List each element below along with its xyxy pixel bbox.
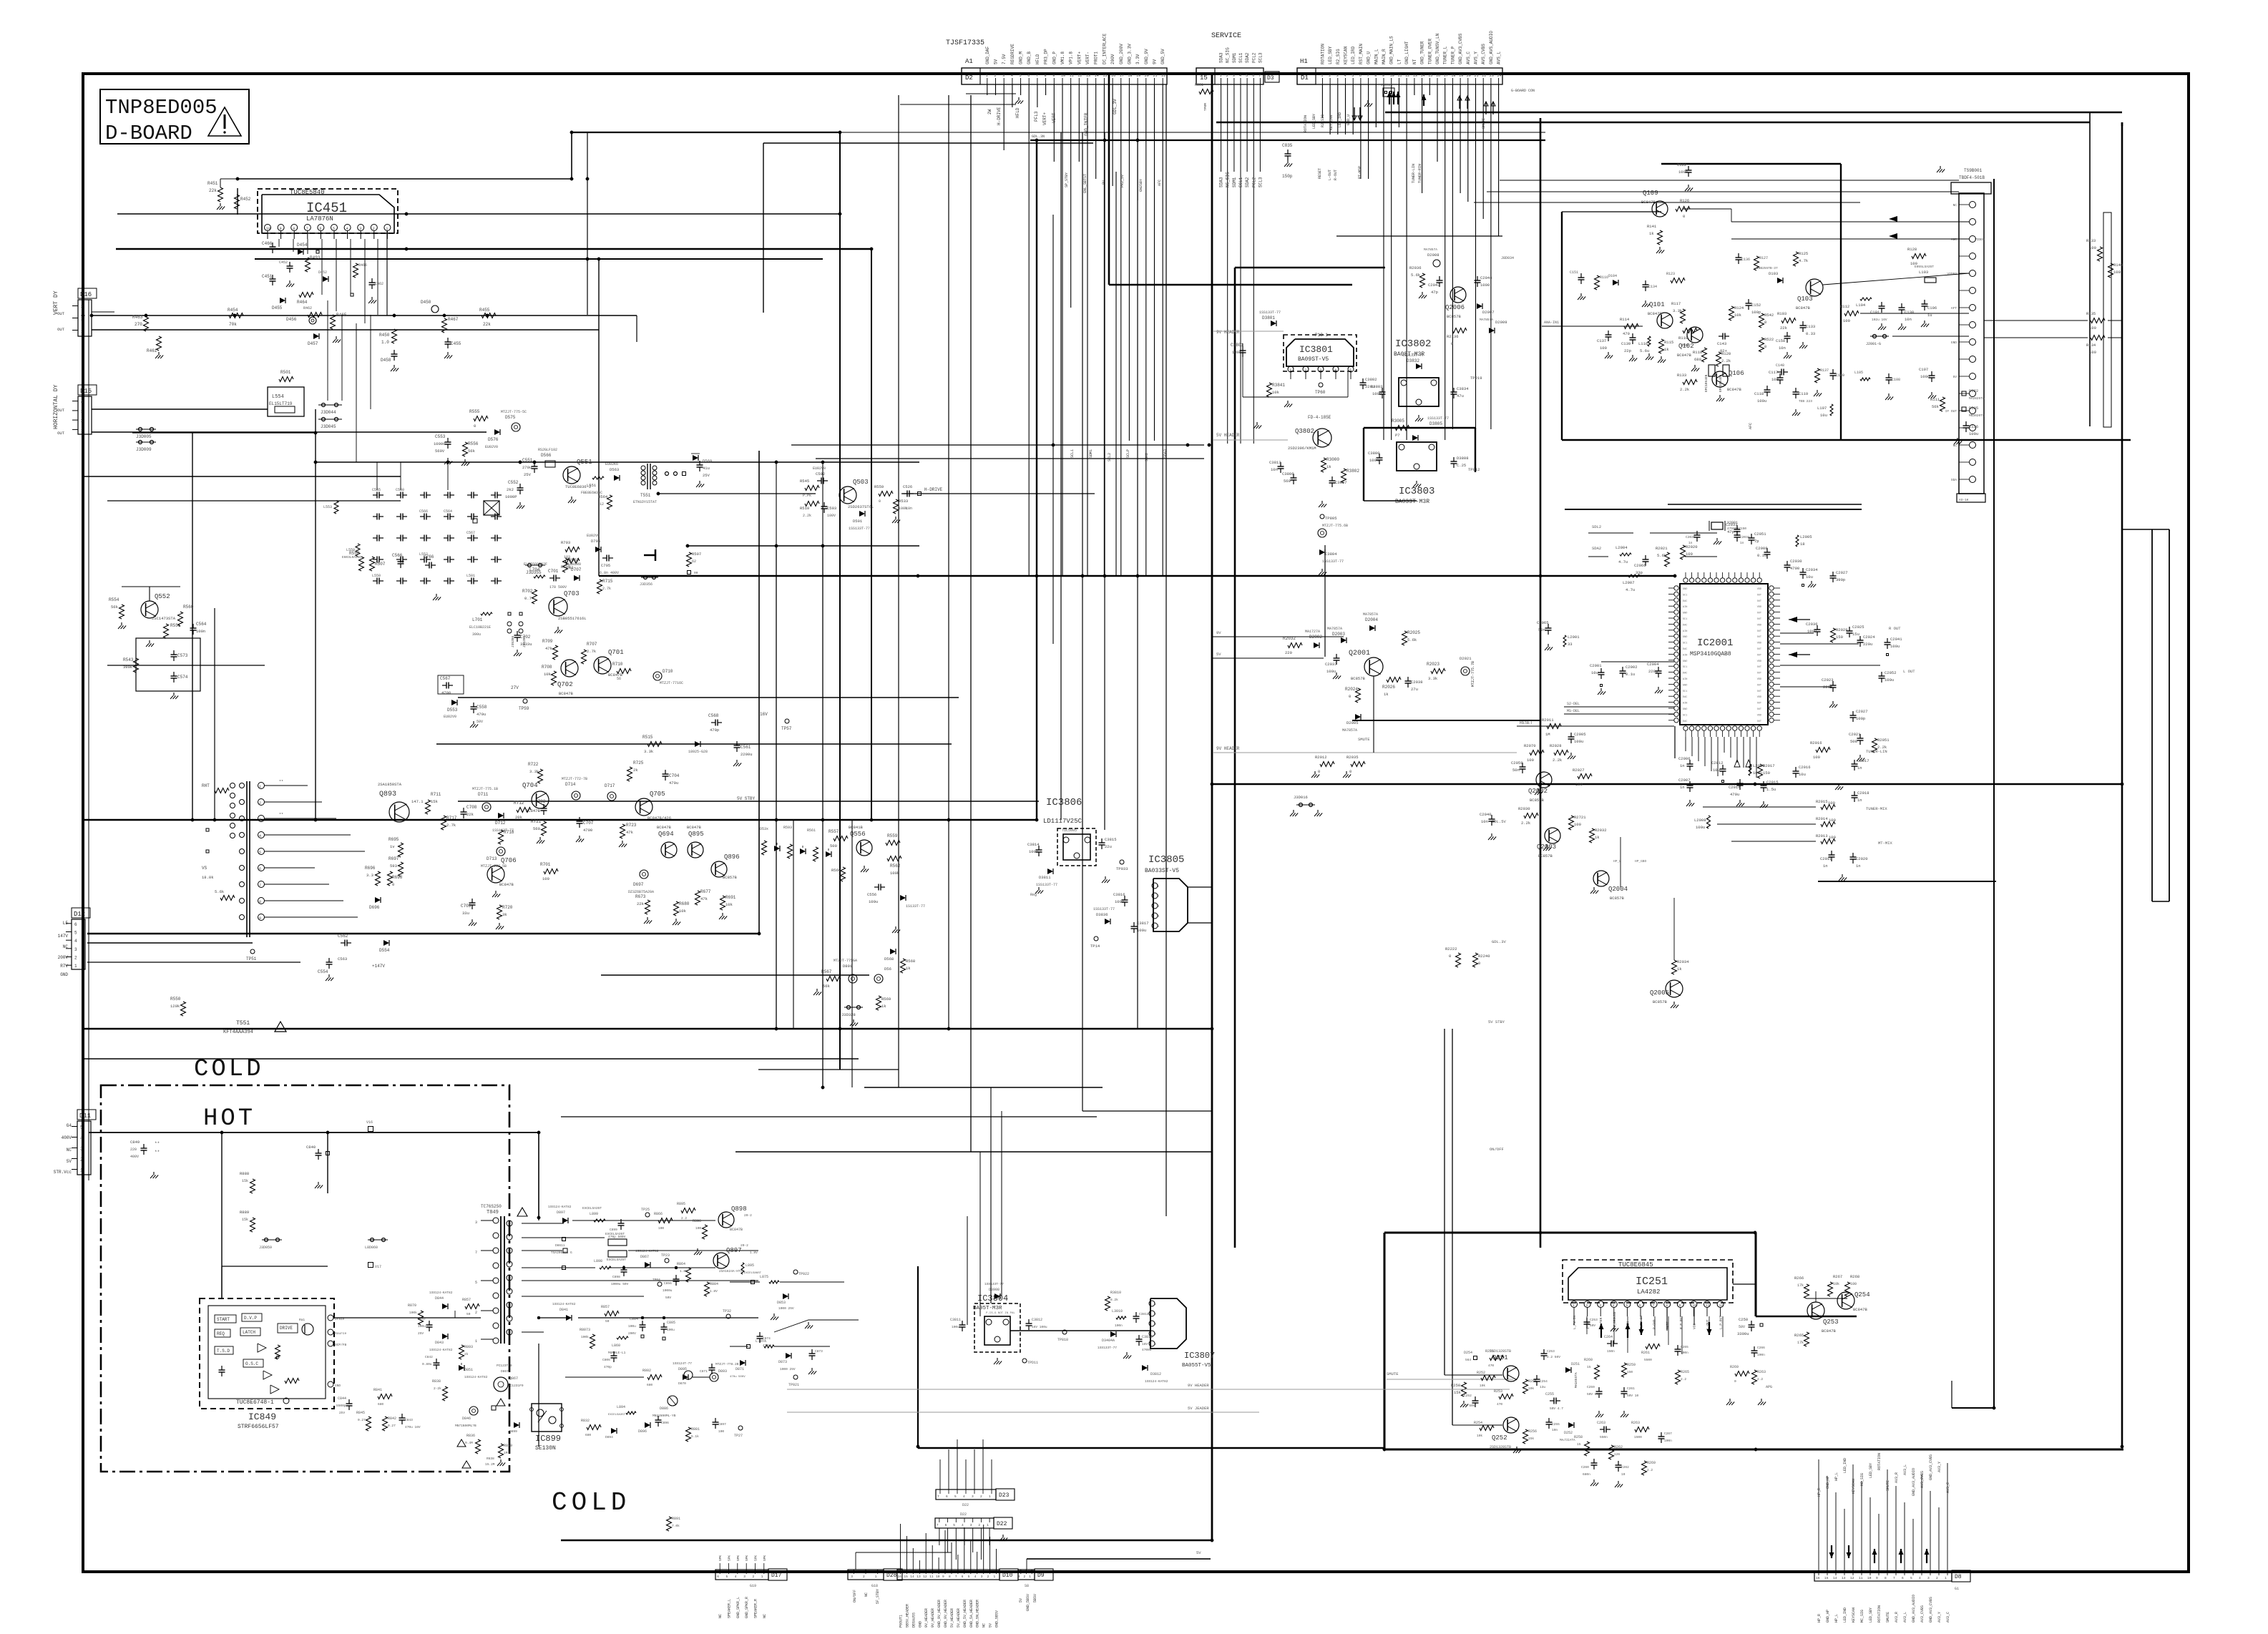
svg-text:R117: R117	[1671, 301, 1681, 306]
svg-text:C843: C843	[405, 1418, 413, 1422]
IC849 inner box	[208, 1306, 326, 1399]
svg-text:1: 1	[1289, 368, 1291, 373]
wire V 2019 audio feed	[1444, 1029, 1445, 1375]
transistor Q703	[549, 597, 567, 616]
capacitor C3807	[1331, 476, 1333, 481]
svg-text:22: 22	[1482, 74, 1486, 78]
testpoint TP3818	[1062, 1330, 1067, 1334]
svg-text:220u: 220u	[1648, 669, 1658, 674]
svg-text:SCL3: SCL3	[1258, 177, 1263, 187]
capacitor C2023	[1832, 681, 1834, 685]
svg-text:APG: APG	[1766, 1385, 1772, 1389]
svg-text:47u: 47u	[1457, 393, 1464, 398]
arrow dn hollow 1	[1354, 107, 1355, 120]
ground Q2006 area	[1422, 292, 1423, 295]
svg-text:10n: 10n	[1771, 377, 1779, 382]
svg-text:47k: 47k	[626, 830, 634, 835]
diode D841	[566, 1315, 572, 1321]
capacitor C266	[1754, 1346, 1755, 1351]
wires IC451 pin drops	[278, 239, 280, 247]
tuner box bottom edge	[1562, 439, 2131, 441]
resistor R717	[441, 816, 446, 830]
wire tuner right b	[1984, 337, 2088, 338]
svg-text:TJSF17335: TJSF17335	[946, 39, 984, 47]
svg-text:GND_B: GND_B	[1027, 52, 1032, 64]
svg-text:L116: L116	[1638, 341, 1648, 346]
svg-text:D15: D15	[80, 388, 92, 395]
svg-text:R711: R711	[431, 792, 441, 797]
resistor R565	[834, 836, 848, 841]
capacitor C148	[1777, 371, 1781, 373]
capacitor snubber 10	[444, 516, 448, 517]
svg-text:**: **	[155, 1141, 160, 1146]
svg-text:VERT+: VERT+	[1077, 52, 1082, 64]
svg-text:1k: 1k	[1384, 692, 1389, 697]
resistor R559b	[879, 491, 893, 496]
svg-text:AGC: AGC	[1951, 238, 1957, 242]
svg-text:5: 5	[953, 1523, 955, 1527]
resistor R2015	[1821, 805, 1835, 810]
svg-text:GND_DAF: GND_DAF	[985, 46, 990, 64]
svg-text:1: 1	[1029, 1575, 1031, 1579]
svg-text:SMUTE: SMUTE	[1886, 1612, 1890, 1623]
wire snubber v1	[376, 462, 378, 490]
capacitor C152	[1748, 299, 1749, 303]
svg-text:470: 470	[1497, 1402, 1502, 1406]
svg-text:564: 564	[1465, 1358, 1471, 1362]
svg-text:BC847B: BC847B	[499, 882, 514, 887]
svg-text:R857: R857	[601, 1305, 610, 1309]
svg-text:3: 3	[1157, 904, 1159, 909]
svg-text:C564: C564	[196, 622, 207, 627]
svg-text:DAC: DAC	[1683, 648, 1687, 651]
svg-text:C849: C849	[130, 1140, 140, 1145]
IC3807 body	[1150, 1298, 1186, 1349]
svg-text:100: 100	[1829, 818, 1836, 823]
svg-text:9V: 9V	[1102, 180, 1106, 185]
svg-text:J8D034: J8D034	[1501, 256, 1514, 260]
svg-text:TP219: TP219	[1470, 376, 1482, 381]
ground C835	[1287, 160, 1289, 164]
wire T849 rail 7	[522, 1331, 544, 1333]
svg-text:100u: 100u	[1969, 431, 1978, 436]
diode D459	[394, 350, 395, 354]
capacitor C2025	[1849, 627, 1850, 631]
svg-text:5: 5	[726, 1575, 728, 1579]
resistor R2026	[1387, 677, 1401, 683]
capacitor C253a	[1586, 1318, 1588, 1322]
ground R558	[464, 459, 466, 463]
resistor R263b	[1752, 1370, 1757, 1384]
capacitor snubber 23	[467, 559, 471, 560]
svg-text:470u 500V: 470u 500V	[730, 1376, 746, 1379]
wire tuner right d	[2108, 337, 2122, 338]
svg-text:22k: 22k	[483, 322, 491, 327]
capacitor C256	[1548, 1418, 1550, 1422]
svg-text:400V: 400V	[62, 1135, 72, 1140]
svg-text:MTZJT-777.5B: MTZJT-777.5B	[481, 864, 507, 869]
svg-text:2.2k: 2.2k	[1721, 358, 1731, 363]
svg-text:R533: R533	[899, 499, 908, 504]
resistor R111	[1940, 397, 1945, 411]
svg-text:5V: 5V	[1216, 652, 1221, 657]
capacitor C255	[1550, 1400, 1554, 1401]
svg-text:R703: R703	[561, 540, 570, 545]
svg-text:L2004: L2004	[1616, 545, 1628, 550]
capacitor C847	[429, 1321, 430, 1325]
resistor R266	[1804, 1284, 1809, 1298]
ground R451	[220, 203, 221, 207]
svg-text:2.7k: 2.7k	[446, 823, 456, 828]
IC3802 pins	[1401, 380, 1407, 386]
resistor R702	[532, 589, 537, 604]
svg-text:EXCELSA35T: EXCELSA35T	[607, 1258, 626, 1262]
svg-text:16: 16	[1436, 74, 1440, 78]
inductor L551	[592, 476, 604, 479]
svg-text:EXCELSA35T: EXCELSA35T	[605, 1232, 625, 1236]
capacitor C2024	[1859, 636, 1861, 640]
capacitor C805	[663, 1323, 665, 1327]
ground R461	[158, 352, 160, 356]
capacitor snubber 19	[373, 559, 377, 560]
svg-text:12: 12	[1077, 74, 1082, 78]
wire IC3804-3807	[1010, 1330, 1150, 1331]
wire tuner right a	[1984, 320, 2088, 321]
small square T551 a	[206, 828, 209, 831]
resistor R543	[134, 658, 139, 672]
resistor R253	[1499, 1394, 1513, 1399]
capacitor C265	[1677, 1345, 1678, 1349]
svg-text:P-IS-G NOT IN PAL: P-IS-G NOT IN PAL	[986, 1312, 1015, 1315]
svg-text:R718: R718	[504, 830, 514, 835]
capacitor C526	[903, 493, 907, 494]
svg-text:20: 20	[1467, 74, 1471, 78]
svg-text:1k: 1k	[906, 966, 911, 971]
rect frame R543	[136, 638, 200, 691]
svg-text:560V: 560V	[435, 449, 445, 454]
svg-text:Q2006: Q2006	[1445, 304, 1465, 311]
wire V3008 right	[2151, 529, 2153, 901]
resistor R466	[353, 263, 358, 278]
capacitor C874	[759, 1332, 761, 1336]
svg-text:J8E036: J8E036	[1381, 83, 1393, 87]
svg-text:HFLD: HFLD	[1015, 107, 1020, 118]
svg-text:R2025: R2025	[1407, 630, 1420, 635]
svg-text:J3D059: J3D059	[259, 1246, 272, 1250]
wire mid H 1520	[864, 1087, 1103, 1088]
svg-text:19: 19	[1459, 74, 1463, 78]
svg-text:D873: D873	[778, 1360, 787, 1364]
ground C840	[318, 1182, 319, 1185]
svg-text:5: 5	[968, 1575, 970, 1579]
ground C2021	[1859, 755, 1861, 758]
capacitor C2052	[1881, 672, 1882, 676]
wire trunk H 1007	[1352, 720, 1540, 721]
svg-text:150: 150	[1627, 1370, 1633, 1374]
wire psu bottom rail	[538, 1344, 539, 1447]
svg-text:100u: 100u	[1696, 825, 1705, 830]
svg-text:5V: 5V	[989, 1623, 993, 1628]
svg-text:TP012: TP012	[1468, 467, 1480, 472]
capacitor snubber 20	[396, 559, 401, 560]
svg-text:C2037: C2037	[1325, 662, 1337, 667]
wire H 763 right feed	[688, 545, 919, 547]
svg-text:TP32: TP32	[723, 1309, 731, 1313]
svg-text:L895: L895	[746, 1263, 754, 1268]
svg-text:R123: R123	[1666, 272, 1675, 276]
svg-text:C503: C503	[827, 506, 836, 511]
capacitor snubber 15	[420, 537, 424, 539]
transistor Q893	[389, 802, 409, 822]
svg-text:R881: R881	[691, 1427, 700, 1432]
svg-text:R857: R857	[462, 1298, 471, 1302]
testpoint TP24	[658, 1282, 662, 1286]
svg-text:100p: 100p	[1856, 716, 1865, 721]
svg-text:C3800: C3800	[1368, 451, 1380, 456]
arrow D8 d	[1831, 1545, 1832, 1558]
resistor R2021	[1665, 552, 1670, 567]
resistor R450	[392, 329, 397, 343]
svg-text:OUT: OUT	[1757, 612, 1761, 615]
ground C130	[1901, 323, 1902, 327]
svg-text:LED_IRD: LED_IRD	[1351, 46, 1356, 64]
svg-text:3: 3	[259, 818, 261, 822]
svg-text:R259: R259	[1627, 1363, 1636, 1367]
svg-text:3: 3	[1599, 1303, 1601, 1308]
svg-text:D10: D10	[1002, 1572, 1013, 1579]
svg-text:C3801: C3801	[1231, 343, 1243, 348]
svg-text:23: 23	[1490, 74, 1494, 78]
svg-text:R2222: R2222	[1445, 946, 1457, 951]
small square L701 a	[508, 612, 511, 615]
svg-text:D3811: D3811	[1039, 875, 1051, 880]
ground C2005	[1570, 753, 1572, 756]
svg-text:SCL3: SCL3	[1258, 52, 1263, 63]
svg-text:NC: NC	[67, 1148, 72, 1153]
svg-text:TEB 223: TEB 223	[1799, 399, 1812, 403]
svg-text:Source: Source	[335, 1331, 347, 1336]
capacitor C566	[400, 557, 401, 562]
resistor R567	[826, 977, 841, 982]
diode arrow a	[1734, 760, 1740, 767]
svg-text:R2034: R2034	[1677, 959, 1689, 964]
svg-text:C264: C264	[1604, 1335, 1613, 1339]
resistor R562	[887, 856, 901, 861]
resistor R258	[1585, 1442, 1590, 1456]
svg-text:200V: 200V	[1110, 54, 1115, 64]
svg-text:VDD: VDD	[1757, 660, 1761, 663]
resistor R268	[1845, 1282, 1850, 1296]
ground Q703	[557, 627, 559, 630]
svg-text:R2032: R2032	[1595, 828, 1607, 833]
svg-text:SMUTE: SMUTE	[1387, 1371, 1399, 1376]
svg-text:SDA3: SDA3	[1219, 177, 1224, 187]
svg-text:680: 680	[647, 1383, 652, 1387]
wire V 1218	[871, 249, 872, 820]
resistor R3841	[1267, 383, 1272, 397]
resistor R3800	[1321, 458, 1326, 472]
svg-text:R463: R463	[132, 315, 143, 320]
svg-text:1SS124-KAT82: 1SS124-KAT82	[429, 1348, 453, 1352]
svg-text:GNL_SBTST: GNL_SBTST	[1083, 174, 1087, 193]
wire bundle D22	[939, 1528, 940, 1545]
svg-text:100u: 100u	[1757, 398, 1766, 403]
svg-text:R269: R269	[1730, 1365, 1739, 1369]
diode D576	[494, 429, 500, 435]
resistor R2070	[1530, 750, 1544, 755]
svg-text:47p: 47p	[1727, 529, 1734, 534]
svg-text:R141: R141	[1647, 224, 1657, 229]
capacitor C708	[463, 808, 464, 812]
svg-text:SDM1: SDM1	[1232, 52, 1237, 63]
svg-text:MN3020TX: MN3020TX	[1969, 414, 1985, 418]
svg-text:Q867: Q867	[509, 1376, 518, 1381]
resistor R845	[366, 1417, 371, 1431]
transistor Q702	[561, 660, 578, 677]
IC3801 body	[1286, 339, 1354, 366]
svg-text:VDD: VDD	[1757, 696, 1761, 699]
svg-text:100n: 100n	[1664, 1439, 1672, 1443]
svg-text:C143: C143	[1717, 341, 1726, 346]
svg-text:2200u: 2200u	[740, 752, 753, 757]
svg-text:3.3k: 3.3k	[1428, 676, 1438, 681]
svg-text:SDA2: SDA2	[1592, 546, 1601, 551]
svg-text:MA/CCATA: MA/CCATA	[1560, 1438, 1575, 1442]
capacitor C568	[711, 722, 715, 723]
gray SMUTE wire	[1387, 1379, 1513, 1380]
resistor R3810	[1105, 1296, 1110, 1311]
resistor R452	[235, 195, 240, 209]
svg-text:TP25: TP25	[641, 1208, 650, 1212]
capacitor C835	[1287, 150, 1289, 154]
svg-text:100u: 100u	[667, 1328, 675, 1332]
svg-text:7p: 7p	[1754, 539, 1759, 544]
diode D710 circle	[653, 672, 662, 680]
ground IC251 a	[1613, 1325, 1615, 1329]
svg-text:47k: 47k	[700, 896, 708, 901]
resistor R522	[1759, 338, 1764, 352]
svg-text:1n: 1n	[1856, 864, 1861, 869]
svg-text:D22: D22	[960, 1512, 967, 1517]
svg-text:126: 126	[1614, 1452, 1620, 1457]
svg-text:R564: R564	[598, 494, 608, 499]
ground D22	[1002, 1535, 1004, 1538]
svg-text:R2012: R2012	[1315, 755, 1327, 760]
wire trunk H 1146	[83, 819, 1037, 821]
svg-text:R8073: R8073	[580, 1328, 590, 1332]
svg-text:NC: NC	[1953, 203, 1957, 207]
diode D894	[611, 1428, 617, 1434]
ground C849	[153, 1172, 155, 1175]
svg-text:100n: 100n	[1678, 170, 1688, 175]
svg-text:C766: C766	[424, 554, 434, 559]
svg-text:SCL1: SCL1	[1238, 52, 1243, 63]
resistor R2017	[1758, 764, 1763, 778]
svg-text:2SA1624A-HTA: 2SA1624A-HTA	[719, 1269, 743, 1273]
svg-text:D2008: D2008	[1427, 253, 1440, 258]
svg-text:PW_GROUND: PW_GROUND	[1613, 1311, 1617, 1329]
svg-text:50: 50	[605, 1319, 610, 1324]
jumper J8E036	[1383, 88, 1394, 97]
wire trunk V 2787 right	[1993, 179, 1995, 1408]
svg-text:GND_TUNER: GND_TUNER	[1420, 41, 1425, 64]
svg-text:5: 5	[954, 1494, 957, 1499]
svg-text:3: 3	[1319, 368, 1321, 373]
svg-text:AV3_L: AV3_L	[1903, 1612, 1907, 1623]
ground R269z a	[1729, 1399, 1731, 1402]
svg-text:C842: C842	[425, 1355, 433, 1359]
svg-text:C452: C452	[279, 260, 288, 265]
svg-text:PCL2: PCL2	[1251, 52, 1256, 63]
arrow D8 c	[1926, 1549, 1927, 1563]
svg-text:50V 4.7: 50V 4.7	[1550, 1406, 1563, 1411]
svg-text:L701: L701	[472, 617, 483, 622]
capacitor C552	[519, 484, 521, 488]
svg-text:OUT: OUT	[1757, 708, 1761, 711]
svg-text:24: 24	[1497, 74, 1502, 78]
svg-text:R542: R542	[1764, 313, 1774, 318]
svg-text:22k: 22k	[637, 901, 645, 906]
svg-text:593: 593	[390, 864, 397, 869]
resistor R252	[1481, 1376, 1495, 1381]
svg-text:2.2k: 2.2k	[1680, 387, 1690, 392]
resistor R2032	[1288, 643, 1302, 648]
wire audio feed b	[1452, 1424, 1502, 1426]
capacitor C843	[401, 1414, 403, 1418]
svg-text:D3812: D3812	[1150, 1372, 1161, 1376]
svg-text:4: 4	[80, 1136, 83, 1141]
svg-text:D3801: D3801	[1262, 315, 1275, 321]
svg-text:1SS133T-77: 1SS133T-77	[849, 527, 870, 531]
ground IC3802	[1418, 415, 1419, 419]
wire mid vertical bus 6	[1082, 132, 1083, 1111]
svg-text:MTZJT-775.6B: MTZJT-775.6B	[1322, 524, 1348, 528]
resistor R725	[627, 767, 632, 781]
ground R2012	[1314, 771, 1316, 775]
svg-text:SPEAKER_R: SPEAKER_R	[754, 1599, 758, 1618]
svg-text:C2066: C2066	[1634, 563, 1646, 568]
svg-text:V16: V16	[366, 1120, 373, 1125]
svg-text:PROT1: PROT1	[1094, 52, 1099, 64]
testpoint TP23	[665, 1258, 669, 1263]
resistor R134r	[2091, 336, 2105, 341]
capacitor C2041	[1887, 638, 1888, 642]
svg-text:MA7857A: MA7857A	[1424, 248, 1437, 252]
wire H1968 b	[1952, 1407, 1994, 1409]
resistor R718	[499, 830, 504, 844]
resistor R265	[1804, 1332, 1809, 1346]
svg-text:MA2825TA: MA2825TA	[1969, 396, 1985, 401]
svg-text:5BSV_HEADER: 5BSV_HEADER	[905, 1604, 909, 1628]
resistor R568	[901, 959, 906, 973]
jumper J3D356	[644, 576, 647, 579]
svg-text:3.3k: 3.3k	[1673, 308, 1683, 313]
svg-text:100: 100	[1575, 782, 1583, 787]
svg-text:AFC: AFC	[1749, 423, 1753, 429]
svg-text:TP57: TP57	[781, 726, 792, 731]
svg-text:NT: NT	[1412, 59, 1417, 64]
capacitor C564	[192, 624, 194, 628]
svg-text:IC3806: IC3806	[1046, 797, 1082, 808]
svg-text:AFC: AFC	[1158, 180, 1162, 186]
svg-text:3: 3	[970, 1523, 972, 1527]
resistor R126	[1676, 207, 1690, 212]
ic849 pin bottom	[283, 1398, 289, 1404]
wire T849 rail 3	[522, 1250, 562, 1251]
svg-text:J3D328: J3D328	[841, 1012, 856, 1017]
svg-text:EU02V0: EU02V0	[444, 715, 456, 719]
capacitor C503	[823, 502, 825, 507]
